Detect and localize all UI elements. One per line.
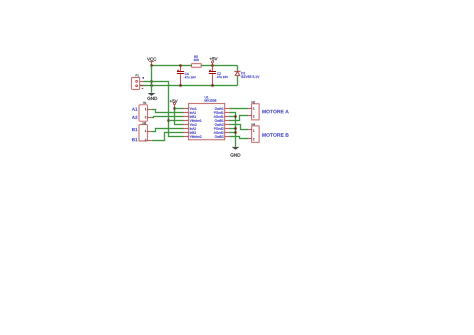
label H2 [252, 101, 255, 103]
junction +5V / C2 top [211, 64, 214, 67]
label 2 [145, 139, 146, 141]
wire VCC vertical [150, 66, 153, 86]
label R5 [194, 56, 198, 58]
label AGnd1 [214, 115, 224, 117]
label InB2 [190, 131, 196, 133]
label MOTORE B [262, 133, 288, 137]
label B1 [132, 128, 137, 131]
+5V supply symbol (at IC) [174, 103, 176, 107]
+5V supply symbol (top) [212, 61, 214, 66]
label OutA2 [215, 123, 224, 125]
VCC supply symbol [149, 62, 154, 66]
wire top rail VCC to R5 [152, 64, 192, 67]
label 47u 16V [185, 76, 196, 78]
label 200 [194, 59, 199, 61]
resistor R5 [192, 64, 202, 67]
wire Vcc1 [175, 107, 184, 110]
label InB1 [190, 116, 196, 118]
junction P1 pin1 [150, 80, 153, 83]
label 1 [145, 108, 146, 110]
zener diode D1 [235, 66, 240, 86]
label H3 [143, 122, 146, 124]
junction AGnd1 [234, 115, 237, 118]
label MOTORE A [262, 110, 288, 114]
wire A1 to InA1 [152, 110, 184, 113]
wire B1 to InB2 [152, 133, 184, 141]
wire P1 pin1 to VMotor rail [144, 82, 184, 137]
label Vcc1 [190, 108, 197, 110]
ground symbol GND2 [232, 147, 240, 150]
label 1 [253, 130, 254, 132]
label 1 [145, 130, 146, 132]
IC U1 MX1508 [184, 104, 230, 140]
label GND [147, 97, 157, 100]
wire OutB1 to H2 pin2 [230, 116, 249, 121]
wire +5V to Vcc1/Vcc2 [175, 106, 184, 124]
label PGnd2 [214, 127, 224, 129]
junction C2 bottom [211, 84, 214, 87]
wire OutA1 to H2 pin1 [230, 107, 249, 110]
label MX1508 [205, 99, 217, 101]
wire OutA2 to H4 pin1 [230, 125, 249, 130]
label A1 [132, 108, 138, 111]
label VMotor2 [190, 135, 202, 137]
junction C4 bottom [179, 84, 182, 87]
label Vcc2 [190, 123, 197, 125]
label OutA1 [215, 107, 224, 109]
label D1 [241, 72, 245, 74]
label 1 [253, 107, 254, 109]
left pin stubs [184, 109, 189, 137]
label BZV55 5.1V [242, 76, 260, 78]
label B1 [132, 138, 137, 141]
label 2 [145, 116, 146, 118]
connector H1 [139, 105, 152, 121]
label A2 [132, 116, 137, 119]
connector H4 [248, 126, 259, 142]
label OutB2 [215, 135, 224, 137]
wire AGnd1 tap [230, 115, 236, 118]
label InA2 [190, 127, 196, 129]
right pin stubs [225, 109, 230, 137]
wire VMotor1 [169, 119, 184, 122]
junction PGnd2 [234, 127, 237, 130]
wire OutB2 to H4 pin2 [230, 137, 249, 139]
junction VMotor1 [167, 119, 170, 122]
junction Vcc1 [173, 107, 176, 110]
label InA1 [190, 112, 196, 114]
label C2 [217, 72, 221, 74]
label P1 [136, 74, 139, 76]
label H1 [143, 102, 146, 104]
ground symbol GND1 [148, 86, 156, 96]
capacitor C2 [209, 66, 216, 86]
wire top rail R5 to D1 corner [201, 64, 237, 67]
label AGnd2 [214, 131, 224, 133]
capacitor C4 [177, 66, 184, 86]
label 47u 16V [217, 76, 228, 78]
connector H2 [248, 104, 259, 120]
wire GND bottom rail [140, 84, 238, 87]
label +5V [210, 57, 218, 60]
label +5V [170, 100, 178, 103]
label 2 [253, 138, 254, 140]
connector H3 [139, 125, 152, 141]
wire B1 to InA2 [152, 129, 184, 132]
label 2 [253, 115, 254, 117]
label C4 [185, 73, 189, 75]
label VMotor1 [190, 120, 202, 122]
junction AGnd2 [234, 131, 237, 134]
label GND [231, 153, 241, 156]
wire PGnd2 tap [230, 127, 236, 130]
wire A2 to InB1 [152, 117, 184, 118]
junction VCC rail [150, 64, 153, 67]
label U1 [205, 96, 209, 98]
connector P1 [132, 77, 145, 89]
label PGnd1 [214, 111, 224, 113]
label H4 [252, 123, 255, 125]
label VCC [147, 58, 156, 61]
wire AGnd2 tap [230, 131, 236, 134]
junction C4 top [179, 64, 182, 67]
label OutB1 [215, 119, 224, 121]
wire PGnd1 down GND rail [230, 113, 236, 147]
junction GND rail left [150, 84, 153, 87]
